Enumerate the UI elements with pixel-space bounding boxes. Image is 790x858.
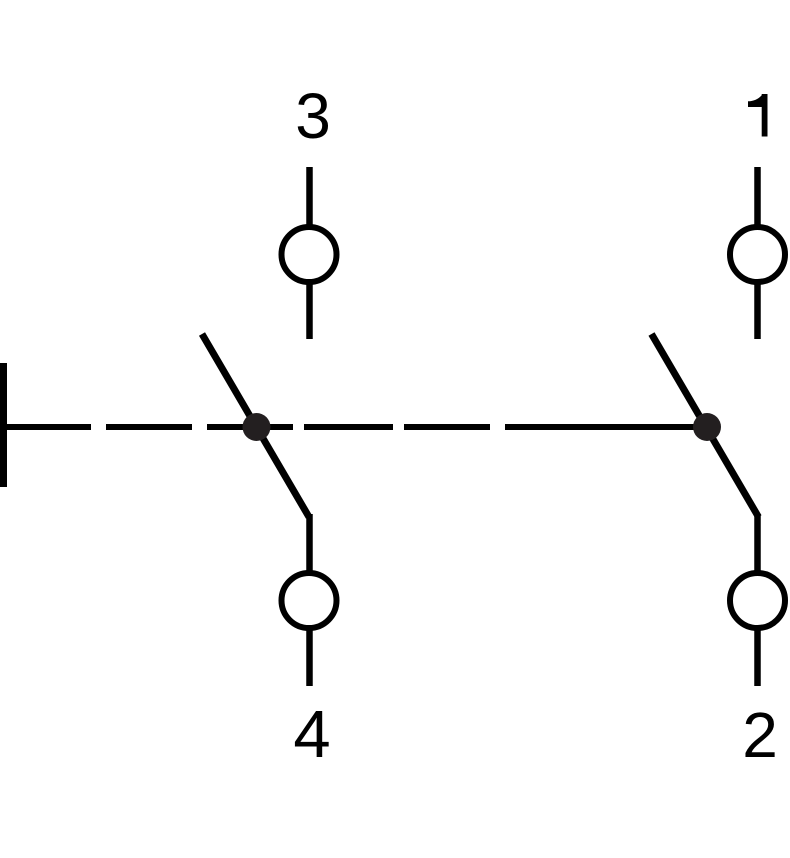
pin label 1 — [748, 94, 768, 137]
terminal 3 lead wire — [306, 167, 313, 227]
mechanical linkage dash segment 1 — [6, 424, 91, 430]
terminal 2 circle — [730, 573, 785, 628]
wire from terminal 1 circle to fixed contact — [754, 283, 761, 339]
pole 1 switch blade — [202, 334, 309, 517]
wire from pole 2 blade to terminal 2 circle — [754, 514, 761, 572]
wire from pole 1 blade to terminal 4 circle — [306, 514, 313, 572]
mechanical linkage dash segment 2 — [106, 424, 192, 430]
wire from terminal 3 circle to fixed contact — [306, 283, 313, 339]
terminal 3 circle — [282, 227, 337, 282]
actuator operating head bar — [0, 363, 7, 487]
svg-text:3: 3 — [295, 80, 331, 152]
pole 2 linkage junction dot — [693, 413, 721, 441]
pole 1 linkage junction dot — [243, 413, 271, 441]
svg-text:2: 2 — [742, 699, 778, 771]
mechanical linkage dash segment 5 — [404, 424, 490, 430]
terminal 2 lead wire — [754, 629, 761, 686]
terminal 4 circle — [282, 573, 337, 628]
pole 2 switch blade — [652, 334, 759, 517]
terminal 1 circle — [730, 227, 785, 282]
mechanical linkage dash segment 3 — [207, 424, 293, 430]
svg-text:4: 4 — [293, 697, 330, 772]
mechanical linkage dash segment 4 — [304, 424, 393, 430]
terminal 4 lead wire — [306, 629, 313, 686]
mechanical linkage dash segment 6 — [505, 424, 706, 430]
terminal 1 lead wire — [754, 167, 761, 227]
